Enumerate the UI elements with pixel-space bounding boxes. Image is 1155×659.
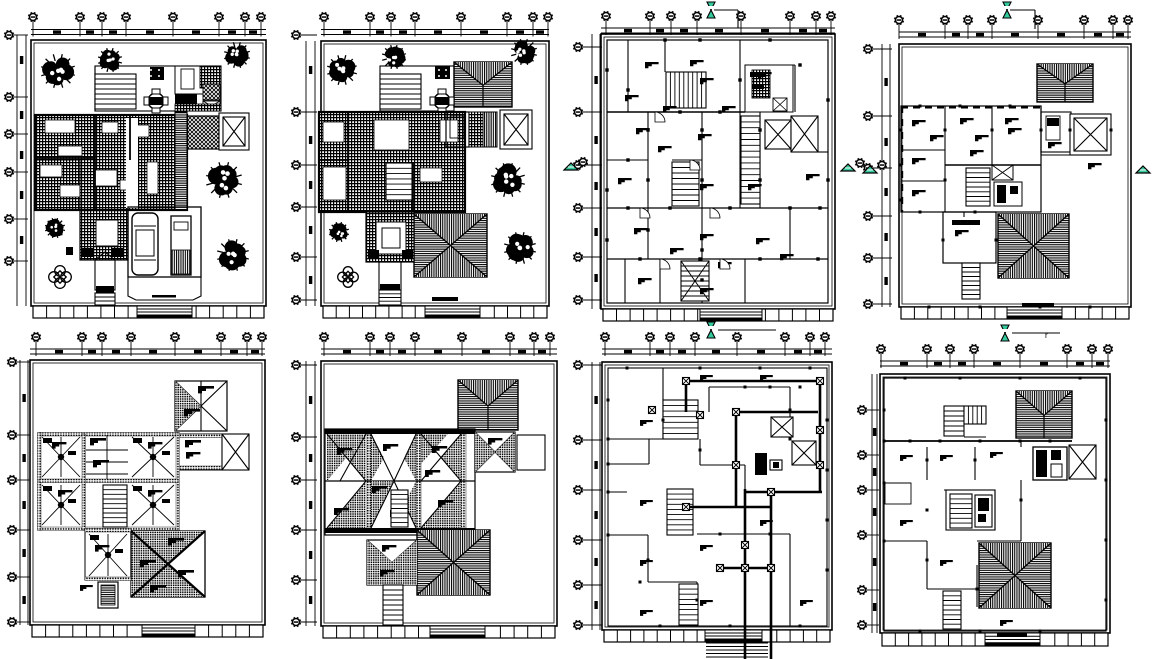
- plan1 left grid markers: [4, 30, 28, 306]
- plan3 door arcs: [640, 112, 730, 269]
- plan8 bottom stair: [943, 591, 961, 629]
- plan2 entry walkway: [379, 262, 401, 291]
- plan5 room labels: [52, 442, 200, 552]
- plan1 cross table: [144, 89, 168, 113]
- plan1 upper-right xx room: [203, 84, 220, 100]
- plan1 kitchen crosshatch strip: [187, 116, 219, 149]
- plan6 top grid markers: [319, 332, 557, 356]
- plan2 vl strip: [483, 112, 497, 147]
- plan2 stair core: [386, 163, 412, 200]
- plan3 footer tile strip: [603, 309, 833, 321]
- plan5 top-right hip unit: [175, 381, 227, 431]
- plan1 upper-right bed room: [175, 66, 221, 94]
- plan7 left grid markers: [573, 360, 602, 630]
- plan5 big hip bottom-right: [131, 531, 205, 597]
- plan5 right attach room: [178, 434, 222, 470]
- plan3 interior walls: [607, 40, 828, 303]
- plan4 stair centre: [966, 168, 990, 206]
- plan8 bath top-right: [1033, 447, 1067, 480]
- plan3 section arrow right: [841, 164, 855, 171]
- plan4 footer tile strip: [901, 307, 1129, 319]
- plan1 upper-right small xbox: [203, 101, 220, 111]
- plan3 scissor cross: [681, 261, 709, 301]
- plan1 tree top-right: [224, 42, 250, 68]
- plan6 hip top-right: [458, 380, 518, 430]
- plan8 left grid markers: [857, 374, 879, 633]
- plan6 right plain rect: [517, 435, 545, 470]
- plan4 top-right bed room: [1041, 112, 1071, 152]
- plan1 tree right-bottom: [217, 239, 249, 271]
- plan1 main hatched block: [35, 115, 187, 210]
- plan4 arrow marker left: [877, 160, 887, 170]
- plan1 entry steps: [95, 293, 115, 305]
- plan2 entry steps: [379, 290, 401, 305]
- plan7 outlet boxes: [649, 378, 824, 572]
- plan6 hip bottom-center: [417, 530, 490, 595]
- plan3 top grid markers: [601, 11, 836, 35]
- plan2 footer tile strip: [323, 306, 547, 318]
- plan1 apron bar: [152, 295, 176, 298]
- plan5 top grid markers: [30, 332, 267, 356]
- plan1 black box upper: [150, 67, 164, 80]
- plan3 section arrow bottom: [707, 322, 715, 338]
- plan1 upper-right hatch: [200, 66, 221, 88]
- plan2 dots in black box: [438, 69, 447, 77]
- plan2 top-right bed room: [446, 112, 469, 147]
- plan1 car hatched: [171, 216, 191, 275]
- plan4 lower wing room: [943, 212, 996, 263]
- plan1 car sedan: [132, 213, 158, 275]
- plan3 arrow line bottom: [718, 329, 776, 331]
- plan2 flower bottom-left: [338, 267, 359, 288]
- plan4 hip roof bottom: [998, 214, 1069, 278]
- plan2 double xbox: [500, 110, 532, 149]
- plan2 tree right-bottom: [504, 232, 536, 264]
- plan5 main block cells: [38, 433, 180, 531]
- plan8 stair top-left flight1: [944, 406, 964, 436]
- plan5 xbox right: [222, 434, 249, 470]
- plan8 stair centre: [950, 494, 972, 528]
- plan4 section arrow right: [1136, 166, 1150, 173]
- plan1 entry walkway: [95, 252, 115, 293]
- plan2 tree top-mid: [382, 45, 406, 69]
- plan1 tree right-mid: [206, 162, 242, 198]
- plan3 label marks: [618, 60, 820, 294]
- plan2 tree left-mid: [329, 222, 349, 242]
- svg-text:r: r: [1045, 331, 1048, 340]
- plan8 label marks: [900, 452, 1013, 626]
- plan1 tree big top-left: [41, 54, 75, 88]
- plan4 arrow line top: [1010, 9, 1035, 11]
- plan1 black band upper-right: [175, 94, 197, 104]
- plan3 stair centre: [672, 162, 699, 206]
- plan3 arrow line top: [714, 9, 738, 11]
- plan1 top grid markers: [28, 12, 266, 36]
- plan4 bottom stair: [962, 263, 980, 299]
- plan7 thick wires: [686, 381, 822, 659]
- plan5 bottom small rect: [80, 582, 118, 608]
- plan2 hip roof bottom: [414, 214, 487, 277]
- plan4 left grid markers: [863, 44, 892, 309]
- plan7 footer tile strip: [604, 630, 830, 642]
- plan7 top grid markers: [600, 332, 832, 356]
- plan1 garage apron: [128, 277, 201, 300]
- plan7 stair top-left: [663, 400, 698, 439]
- plan3 boundary: [601, 34, 835, 309]
- plan3 stair top-centre: [666, 72, 706, 108]
- plan3 arrow marker left: [578, 157, 588, 167]
- plan3 left grid markers: [573, 34, 602, 309]
- plan7 bottom porch steps: [679, 584, 698, 625]
- plan8 hip roof bottom: [979, 543, 1051, 608]
- plan7 xbox small: [771, 417, 793, 437]
- plan2 tree right-mid: [491, 163, 525, 197]
- plan6 main roof cluster: [325, 429, 475, 535]
- plan8 stair top-left flight2: [964, 406, 986, 424]
- plan1 tree left-mid: [45, 218, 65, 238]
- plan1 site boundary: [31, 40, 266, 306]
- plan4 wall ticks: [900, 105, 1113, 309]
- plan4 boundary: [899, 44, 1131, 307]
- plan4 hip roof top-right: [1037, 64, 1093, 102]
- plan7 boundary: [602, 362, 832, 630]
- plan8 arrow top: [1001, 325, 1009, 341]
- plan7 label marks: [640, 375, 813, 616]
- plan2 top grid markers: [319, 12, 553, 36]
- plan6 bottom stair: [383, 585, 403, 625]
- plan6 stair center: [391, 490, 408, 527]
- plan8 centre fixtures: [975, 495, 992, 527]
- plan1 double xbox: [219, 113, 249, 150]
- plan3 section arrow left: [564, 163, 578, 170]
- plan6 right small hip: [475, 432, 515, 472]
- plan2 porch hatched with table: [366, 212, 414, 262]
- plan7 wall ticks: [607, 367, 829, 628]
- plan8 footer tile strip: [882, 633, 1108, 646]
- plan7 dark fixture: [755, 453, 767, 475]
- plan6 left grid markers: [291, 360, 317, 627]
- plan4 label marks: [912, 118, 1102, 236]
- plan4 xbox right: [1070, 114, 1111, 155]
- plan1 small black dot left: [66, 247, 73, 255]
- plan8 hip roof top: [1016, 391, 1072, 438]
- plan1 tree top-mid: [98, 48, 122, 72]
- plan5 center stair: [103, 485, 127, 527]
- plan1 dots in black box: [150, 69, 160, 77]
- plan6 hip bottom-left: [367, 540, 417, 585]
- plan3 stair mid ladder: [741, 116, 760, 204]
- plan3 wall ticks: [605, 38, 829, 281]
- plan4 top grid markers: [894, 15, 1133, 39]
- plan8 stair centre block: [946, 490, 995, 530]
- plan8 top grid markers: [876, 344, 1113, 368]
- plan3 xbox small: [765, 120, 791, 149]
- plan1 upper wing outline: [95, 66, 221, 111]
- plan5 left grid markers: [7, 357, 30, 627]
- plan7 xbox large: [792, 441, 816, 465]
- plan2 upper wing outline: [380, 66, 454, 111]
- plan1 upper-right lower hatch strip: [175, 104, 221, 111]
- plan2 tree top-right: [511, 39, 537, 65]
- plan2 label bar bottom: [432, 297, 458, 301]
- plan1 stair upper: [95, 74, 136, 109]
- plan7 stair centre: [667, 489, 693, 535]
- plan5 bottom-left room: [85, 529, 131, 581]
- plan2 cross table: [430, 89, 454, 113]
- plan4 small xbox centre: [992, 165, 1013, 180]
- plan4 main block walls: [901, 106, 1070, 217]
- plan1 porch hatched with table: [80, 210, 128, 260]
- plan8 label bar bottom: [997, 633, 1027, 637]
- plan2 left grid markers: [291, 30, 317, 306]
- plan3 arrow marker right: [855, 158, 865, 168]
- plan2 top-right hatch: [469, 112, 483, 147]
- plan4 footer bar: [1022, 303, 1054, 307]
- plan6 footer tile strip: [323, 626, 555, 638]
- plan2 hip roof top-right: [454, 62, 512, 107]
- plan6 boundary: [321, 361, 557, 626]
- plan1 left garden rooms: [35, 160, 80, 210]
- plan1 footer tile strip: [33, 306, 264, 318]
- plan3 bottom scissor stair: [681, 261, 709, 301]
- plan7 fixture box: [770, 460, 782, 470]
- plan3 section arrow top: [707, 2, 715, 18]
- plan2 main hatched block: [319, 112, 465, 212]
- plan5 footer tile strip: [32, 625, 263, 637]
- plan8 boundary: [880, 374, 1110, 633]
- plan8 wall ticks: [883, 377, 1108, 633]
- plan8 arrow line: [1012, 332, 1060, 334]
- plan3 xbox large: [791, 116, 818, 152]
- plan2 black box upper: [435, 66, 450, 79]
- plan1 garage outline: [128, 207, 201, 277]
- plan2 site boundary: [321, 41, 549, 306]
- plan4 section arrow left: [863, 166, 877, 173]
- plan7 bottom wide steps: [706, 643, 768, 657]
- plan8 interior walls: [884, 378, 1106, 631]
- plan7 interior walls: [608, 368, 827, 626]
- plan1 flower bottom-left: [49, 266, 72, 289]
- plan4 section arrow top: [1003, 2, 1011, 18]
- plan8 xbox: [1069, 445, 1096, 479]
- plan3 top-right room cluster: [745, 65, 793, 112]
- plan1 dark stair strip: [175, 112, 187, 210]
- plan4 bath fixtures: [994, 182, 1022, 206]
- plan2 stair upper: [380, 74, 421, 109]
- plan2 tree top-left: [327, 55, 357, 85]
- plan5 boundary: [30, 360, 265, 625]
